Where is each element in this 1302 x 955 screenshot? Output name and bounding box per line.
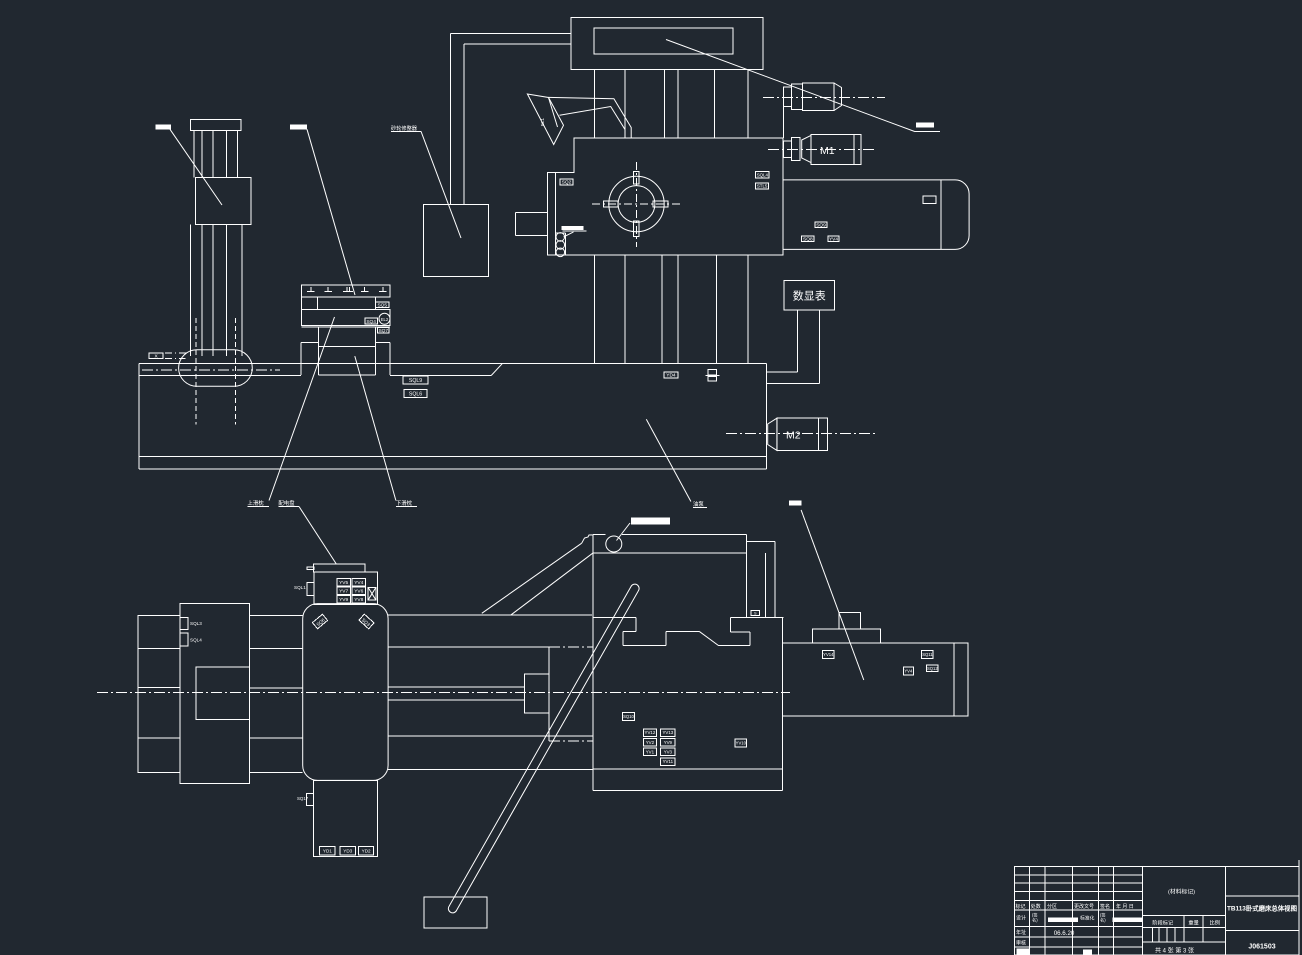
base centre line <box>142 369 280 371</box>
lead screw bottom <box>388 699 524 701</box>
leader to rollers <box>564 232 574 237</box>
work table top plate <box>302 285 391 297</box>
distribution box side tab <box>307 583 314 596</box>
table bottom edge <box>593 790 782 792</box>
svg-text:砂轮修整器: 砂轮修整器 <box>391 124 418 132</box>
gearbox centre body <box>180 604 249 784</box>
tab SQL4 <box>180 633 188 646</box>
arm bend <box>582 535 593 543</box>
svg-text:SQ12: SQ12 <box>927 666 938 671</box>
base second line right <box>390 375 491 377</box>
arm upper line <box>548 97 631 138</box>
switch SQL4 <box>756 172 770 178</box>
channel line 1 <box>746 535 748 618</box>
sheet border right <box>1298 860 1300 955</box>
valve YV4 <box>828 236 839 243</box>
hydraulic box <box>313 780 377 856</box>
svg-text:YD1: YD1 <box>323 848 332 853</box>
pipe inner line <box>463 44 465 204</box>
base left edge <box>138 364 140 470</box>
dresser motor body <box>803 83 835 111</box>
title block outer <box>1015 866 1300 955</box>
tiny switch box <box>751 611 759 616</box>
base second line left <box>139 375 301 377</box>
M1 cone <box>802 135 811 162</box>
leader underline <box>915 131 940 133</box>
svg-text:名): 名) <box>1100 917 1106 924</box>
base second line mid <box>319 374 376 376</box>
housing edge above head <box>783 107 785 139</box>
upper slide plate <box>302 309 391 325</box>
screw bearing block <box>524 674 549 713</box>
bottom view centre line <box>97 692 790 694</box>
distribution box tab <box>307 567 314 569</box>
valve label grid YV12 YV2 YV1 / YV13 YV9 YV3 YV11 <box>643 729 656 737</box>
datum label <box>149 353 163 360</box>
svg-text:J061503: J061503 <box>1248 944 1275 951</box>
dresser motor centre line <box>763 96 885 98</box>
digital display box <box>784 281 835 310</box>
svg-text:SQ8: SQ8 <box>803 236 813 242</box>
T-slot symbols <box>310 287 312 292</box>
svg-text:SQ17: SQ17 <box>297 796 309 801</box>
connector mark box <box>368 588 376 600</box>
roller 3 <box>556 248 565 257</box>
svg-text:YV9: YV9 <box>664 740 673 745</box>
dresser box <box>424 204 489 276</box>
svg-text:SQ11: SQ11 <box>922 652 933 657</box>
svg-text:更改文号: 更改文号 <box>1074 903 1094 910</box>
svg-text:EL1: EL1 <box>540 117 545 126</box>
svg-text:YV13: YV13 <box>662 730 673 735</box>
limit switch SQ7 <box>377 327 389 333</box>
tailstock body <box>782 643 967 716</box>
roller frame right <box>565 233 567 255</box>
left leg edge <box>300 342 302 375</box>
leader to column block <box>170 129 222 205</box>
valve YV10 <box>735 739 747 747</box>
svg-text:YV11: YV11 <box>663 759 674 764</box>
switch SQ2 <box>560 179 573 186</box>
svg-text:YV8: YV8 <box>354 597 363 603</box>
base foot line <box>139 468 767 470</box>
redacted cell <box>1083 950 1092 955</box>
leader to tailstock <box>801 510 864 680</box>
gearbox line <box>138 686 180 688</box>
connector mark diag2 <box>368 588 376 600</box>
svg-text:YV4: YV4 <box>904 668 913 673</box>
wire <box>819 310 821 384</box>
svg-text:YD3: YD3 <box>343 848 352 853</box>
bracket edge <box>548 647 550 741</box>
flag fold line <box>549 98 558 128</box>
column mid block <box>196 177 251 224</box>
svg-text:上滑枕: 上滑枕 <box>248 499 265 507</box>
redacted cell <box>1017 949 1029 955</box>
svg-text:设计: 设计 <box>1016 915 1026 922</box>
svg-text:SQL4: SQL4 <box>190 638 202 643</box>
svg-text:YV2: YV2 <box>646 740 655 745</box>
arm lower line <box>511 553 594 615</box>
small grid <box>1151 927 1153 942</box>
element YD1 <box>320 846 336 854</box>
svg-text:共 4 张 第 3 张: 共 4 张 第 3 张 <box>1155 947 1194 955</box>
guide line <box>388 735 593 737</box>
hidden guide line <box>549 740 593 742</box>
leader lower slide <box>355 356 396 500</box>
saddle body left <box>318 327 320 375</box>
dresser motor nose <box>834 83 842 111</box>
tailstock end line <box>953 643 955 716</box>
tilted switch SQ3 <box>359 614 374 629</box>
clamp bottom <box>633 221 639 237</box>
svg-text:下滑枕: 下滑枕 <box>396 499 413 507</box>
blocked label bar thick <box>631 518 670 525</box>
svg-text:比例: 比例 <box>1210 919 1220 927</box>
channel line 2 <box>774 542 776 619</box>
switch SQ9 <box>815 222 827 228</box>
left lug top <box>516 212 548 214</box>
left lug bottom <box>516 234 548 236</box>
left edge below plate <box>301 297 303 309</box>
element YD3 <box>340 846 355 854</box>
saddle body line <box>319 346 376 348</box>
spindle inner circle <box>618 186 655 223</box>
svg-text:YV3: YV3 <box>664 750 673 755</box>
blocked label bar <box>156 125 172 130</box>
leader from pivot <box>617 523 631 541</box>
wire <box>767 382 820 384</box>
title block horizontals (left) <box>1015 874 1143 876</box>
blocked label bar <box>789 501 802 506</box>
roller 1 <box>556 233 565 242</box>
inner edge line <box>554 173 556 256</box>
limit switch SQ4 <box>365 318 378 325</box>
handle flag EL1 <box>527 94 563 145</box>
svg-text:审核: 审核 <box>1016 940 1026 947</box>
connector mark diag <box>368 588 376 600</box>
leader oil pump <box>646 419 691 501</box>
leader to sub-table <box>307 129 355 295</box>
motor M2 body <box>777 418 819 450</box>
svg-text:(材料标记): (材料标记) <box>1168 888 1195 896</box>
top strip lower edge <box>593 552 747 554</box>
svg-text:EL2: EL2 <box>381 317 389 322</box>
svg-text:阶段标记: 阶段标记 <box>1152 919 1173 927</box>
spindle outer circle <box>609 176 664 231</box>
hidden guide line <box>549 646 593 648</box>
solenoid valve labels YV5 YV4 YV7 YV6 YV9 YV8 <box>337 579 351 586</box>
svg-text:签名: 签名 <box>1100 903 1110 910</box>
pipe left line <box>449 33 451 204</box>
tailstock plate <box>813 629 881 643</box>
wheel head housing <box>548 138 783 255</box>
svg-text:YV6: YV6 <box>354 588 363 594</box>
M2 end cap <box>818 418 827 450</box>
distribution box <box>314 572 377 604</box>
svg-text:标准化: 标准化 <box>1080 915 1095 922</box>
top box (wheel dressing unit housing) <box>571 17 763 69</box>
lamp EL2 <box>379 313 390 324</box>
hidden line <box>235 318 237 425</box>
svg-text:SQ10: SQ10 <box>623 714 634 719</box>
title block verticals <box>1029 866 1031 955</box>
tab SQL3 <box>180 618 188 630</box>
M1 mount block <box>784 141 792 158</box>
column foot obround <box>179 350 253 387</box>
arm lower line <box>560 107 625 130</box>
gearbox line <box>138 737 180 739</box>
guide line <box>388 614 592 616</box>
svg-text:YV5: YV5 <box>339 580 348 586</box>
gearbox line <box>138 648 180 650</box>
svg-text:YV10: YV10 <box>736 740 747 745</box>
dresser motor mount block <box>784 87 792 107</box>
element YD4 <box>664 372 678 379</box>
guide line <box>388 768 593 770</box>
wheel guard body <box>783 180 969 250</box>
channel line 3 <box>765 553 767 618</box>
M2 cone <box>768 418 777 450</box>
right leg edge <box>389 342 391 375</box>
tailstock cap <box>839 612 860 629</box>
svg-text:STL5: STL5 <box>757 183 768 188</box>
svg-text:YV14: YV14 <box>823 652 834 657</box>
clamp left <box>604 201 618 207</box>
ram saddle rounded body <box>303 604 388 781</box>
leader line from top box <box>666 40 915 132</box>
column top bar <box>191 120 241 131</box>
top box inner panel <box>594 28 733 54</box>
guard inner edge <box>940 179 942 249</box>
svg-text:SQ2: SQ2 <box>562 180 572 186</box>
svg-text:SQ4: SQ4 <box>366 319 376 325</box>
label underline <box>563 230 587 232</box>
hand lever rod <box>448 584 639 913</box>
svg-text:SQ9: SQ9 <box>816 222 826 228</box>
leader to distribution box <box>299 507 336 565</box>
svg-text:标记: 标记 <box>1016 903 1026 910</box>
switch SQL9 <box>403 376 428 384</box>
guideway profile <box>593 617 636 619</box>
top strip upper edge right <box>622 534 747 536</box>
roller frame top <box>555 232 565 234</box>
M1 flange <box>792 137 801 160</box>
wire <box>797 310 799 372</box>
redacted signature <box>1048 918 1078 923</box>
dresser motor flange <box>792 84 803 110</box>
svg-text:M1: M1 <box>820 145 835 157</box>
wire <box>767 371 798 373</box>
spindle centre horz <box>592 203 681 205</box>
divider <box>1224 866 1226 955</box>
svg-text:SQ5: SQ5 <box>377 302 387 308</box>
base top edge <box>139 363 767 365</box>
svg-text:YV9: YV9 <box>339 597 348 603</box>
pivot circle <box>606 536 622 552</box>
svg-text:YV4: YV4 <box>829 236 838 242</box>
clamp right <box>653 201 668 207</box>
svg-text:06.6.20: 06.6.20 <box>1054 930 1075 937</box>
motor M1 body <box>811 134 854 164</box>
right section <box>1225 895 1299 897</box>
limit switch SQ5 <box>376 302 389 309</box>
M1 centre line <box>768 149 877 151</box>
columns between head and base <box>594 69 748 363</box>
valve YV14 <box>823 650 835 658</box>
switch SQ12 <box>927 665 939 672</box>
svg-text:S: S <box>754 612 757 616</box>
pipe inner top line <box>464 43 571 45</box>
svg-text:处数: 处数 <box>1031 903 1041 910</box>
M2 centre line <box>726 433 877 435</box>
redacted signature <box>1113 918 1143 923</box>
middle plate <box>318 297 376 309</box>
svg-text:SQL3: SQL3 <box>190 621 202 626</box>
guide line <box>388 646 549 648</box>
svg-text:分区: 分区 <box>1047 903 1057 910</box>
datum tick2 <box>165 357 185 359</box>
slide bottom line <box>302 326 391 328</box>
gearbox hub <box>196 667 249 720</box>
roller 2 <box>556 241 565 250</box>
svg-text:SQL9: SQL9 <box>409 378 422 384</box>
svg-text:油泵: 油泵 <box>693 500 704 508</box>
base bottom edge <box>139 455 767 457</box>
divider <box>1141 866 1143 955</box>
svg-text:YV4: YV4 <box>354 580 363 586</box>
svg-text:YV12: YV12 <box>645 730 656 735</box>
connector lines to saddle <box>249 614 302 616</box>
right leg top <box>376 341 390 343</box>
distribution box top plate <box>314 564 366 572</box>
svg-text:年址: 年址 <box>1016 929 1026 936</box>
svg-text:YD4: YD4 <box>666 373 676 379</box>
leader upper slide <box>269 317 335 501</box>
channel top <box>747 541 775 543</box>
connector symbol on base <box>708 369 716 375</box>
spindle centre vert <box>636 162 638 247</box>
base right edge <box>766 364 768 470</box>
pipe top line <box>450 32 571 34</box>
svg-text:年 月 日: 年 月 日 <box>1116 903 1134 910</box>
svg-text:名): 名) <box>1032 917 1038 924</box>
hidden line <box>195 318 197 425</box>
table bottom strip top <box>593 768 782 770</box>
svg-text:重量: 重量 <box>1188 919 1198 927</box>
table left edge <box>592 535 594 791</box>
valve YV4b <box>903 667 913 675</box>
switch SQ8 <box>802 236 814 243</box>
tilted switch SQ6 <box>312 614 327 628</box>
gearbox left block <box>138 615 180 772</box>
blocked label bar <box>562 226 584 230</box>
switch SQ10 <box>623 712 635 720</box>
blocked label bar <box>916 123 934 128</box>
svg-text:SQL4: SQL4 <box>757 172 769 177</box>
svg-text:配电盘: 配电盘 <box>278 499 295 507</box>
svg-text:YD2: YD2 <box>362 848 371 853</box>
svg-text:SQL6: SQL6 <box>409 392 422 398</box>
svg-text:SQ7: SQ7 <box>378 328 388 334</box>
column vertical lines <box>193 131 195 178</box>
svg-text:YV1: YV1 <box>646 750 655 755</box>
blocked label bar <box>290 125 307 130</box>
guard window <box>923 196 936 203</box>
top strip upper edge <box>593 534 606 536</box>
label underline <box>391 130 421 132</box>
svg-text:YV7: YV7 <box>339 588 348 594</box>
hydraulic box tab <box>307 794 314 806</box>
base chamfer <box>491 364 502 376</box>
left lug edge <box>515 213 517 236</box>
leader to dresser box <box>421 131 461 238</box>
lead screw top <box>388 686 524 688</box>
svg-text:SQL1: SQL1 <box>294 585 306 590</box>
svg-text:TB113卧式磨床总体视图: TB113卧式磨床总体视图 <box>1227 904 1297 913</box>
clamp top <box>633 171 639 184</box>
switch SQL6 <box>404 390 427 398</box>
left leg top <box>301 341 318 343</box>
table right edge <box>781 618 783 791</box>
arm upper line <box>482 543 582 613</box>
lever end box <box>424 897 487 928</box>
switch SQ11 <box>922 650 934 658</box>
svg-text:数显表: 数显表 <box>793 289 826 303</box>
element YD2 <box>359 846 374 854</box>
datum tick <box>165 352 187 354</box>
svg-text:M2: M2 <box>786 430 801 442</box>
switch STL5 <box>756 183 769 189</box>
saddle body right <box>375 327 377 375</box>
M1 end cap <box>854 134 861 164</box>
